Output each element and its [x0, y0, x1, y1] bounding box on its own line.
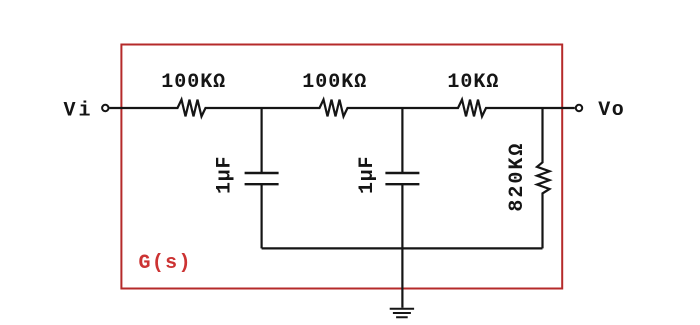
svg-text:Vo: Vo	[598, 99, 624, 122]
svg-text:100KΩ: 100KΩ	[302, 71, 366, 94]
svg-text:100KΩ: 100KΩ	[161, 71, 225, 94]
svg-text:10KΩ: 10KΩ	[447, 71, 498, 94]
svg-text:1µF: 1µF	[356, 157, 379, 195]
svg-text:820KΩ: 820KΩ	[506, 144, 529, 212]
svg-text:1µF: 1µF	[214, 157, 237, 195]
svg-text:G(s): G(s)	[139, 252, 191, 275]
